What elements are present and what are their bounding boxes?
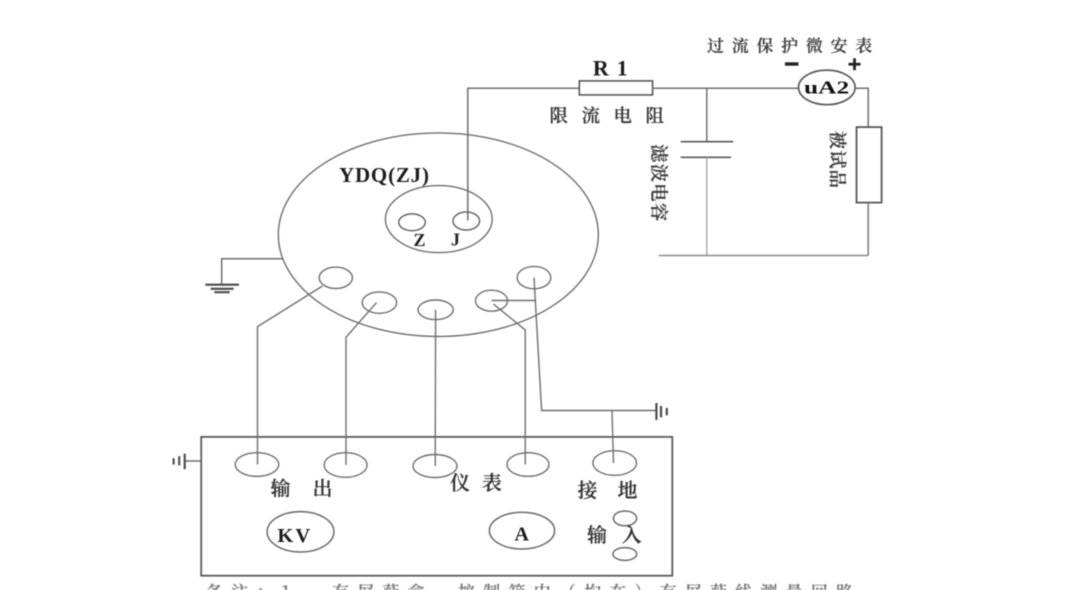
control box xyxy=(201,437,672,576)
terminal T3 xyxy=(418,300,453,320)
wire ground rail to box terminal B5 xyxy=(612,411,614,464)
wire J-terminal to R1 xyxy=(468,88,580,218)
microammeter uA2 xyxy=(799,70,856,105)
wire tip into J xyxy=(467,212,469,221)
test object resistor xyxy=(857,127,882,203)
svg-text:uA2: uA2 xyxy=(804,78,849,98)
wire T2 to box terminal B2 xyxy=(346,303,377,465)
label 仪表 (meter) xyxy=(450,473,501,492)
meter KV xyxy=(267,512,334,552)
label 被试品 (device under test) xyxy=(829,131,846,187)
transformer YDQ(ZJ) body xyxy=(278,133,598,337)
wire T4 to box terminal B4 xyxy=(494,304,526,464)
meter A xyxy=(489,512,554,549)
wire capacitor to bottom rail xyxy=(706,157,708,255)
label 接地 (earth) xyxy=(578,480,637,499)
wire into J terminal xyxy=(467,186,469,219)
resistor R1 xyxy=(579,81,652,95)
wire T1 to box terminal B1 xyxy=(258,286,323,465)
box terminal B4 xyxy=(507,453,549,477)
wire T3 to box terminal B3 xyxy=(434,310,436,466)
label 滤波电容 (filter capacitor) xyxy=(651,145,668,221)
note bottom caption (cropped) xyxy=(207,584,853,590)
wire bottom rail xyxy=(659,255,869,257)
terminal Z xyxy=(399,214,426,231)
label 过流保护微安表 (overcurrent protection microammeter) xyxy=(707,37,871,53)
wire uA2 to test object xyxy=(855,88,868,127)
box terminal B2 xyxy=(324,453,367,478)
ground (right, rotated) xyxy=(656,403,666,420)
ground (box left, rotated) xyxy=(174,454,185,470)
svg-text:YDQ(ZJ): YDQ(ZJ) xyxy=(339,163,430,187)
wire T5 down to ground rail xyxy=(534,278,656,411)
wire box to left ground xyxy=(185,460,202,462)
box terminal B3 xyxy=(413,455,457,478)
polarity minus xyxy=(785,62,799,65)
wire transformer to left ground xyxy=(222,259,284,285)
terminal T5 xyxy=(517,266,551,288)
polarity plus xyxy=(849,58,861,70)
terminal J xyxy=(453,212,480,230)
input jack bottom xyxy=(613,548,637,561)
terminal T1 xyxy=(319,267,352,288)
svg-text:Z: Z xyxy=(414,230,426,250)
terminal T2 xyxy=(362,292,396,313)
wire R1 to uA2 xyxy=(653,87,799,89)
svg-text:J: J xyxy=(451,230,460,250)
wire T4 to T5 drop xyxy=(492,300,537,302)
wire junction to capacitor xyxy=(706,88,708,142)
input jack top xyxy=(613,511,636,526)
capacitor C plates xyxy=(681,141,734,143)
wire test object to bottom rail xyxy=(867,203,869,256)
transformer tap circle xyxy=(385,186,492,253)
box terminal B1 xyxy=(235,453,279,477)
svg-text:R1: R1 xyxy=(593,55,636,80)
label 输入 (input) xyxy=(587,525,641,544)
label 输出 (output) xyxy=(271,478,331,497)
svg-text:A: A xyxy=(515,524,530,546)
box terminal B5 xyxy=(593,451,637,476)
label 限流电阻 (current limiting resistor) xyxy=(551,106,664,123)
svg-text:KV: KV xyxy=(277,525,312,547)
terminal T4 xyxy=(476,290,508,311)
ground (transformer) xyxy=(205,285,239,293)
